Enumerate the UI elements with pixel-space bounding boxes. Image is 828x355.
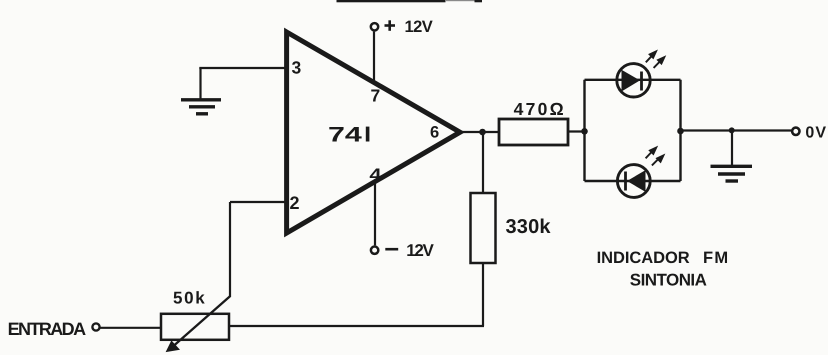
svg-text:470Ω: 470Ω bbox=[514, 99, 564, 119]
svg-text:4: 4 bbox=[369, 164, 382, 184]
svg-text:12V: 12V bbox=[405, 18, 433, 36]
svg-text:SINTONIA: SINTONIA bbox=[630, 270, 707, 289]
svg-text:7: 7 bbox=[371, 85, 381, 105]
svg-text:0V: 0V bbox=[805, 125, 826, 142]
svg-text:12V: 12V bbox=[406, 241, 434, 260]
svg-text:ENTRADA: ENTRADA bbox=[8, 319, 87, 339]
svg-text:2: 2 bbox=[290, 193, 300, 213]
svg-text:50k: 50k bbox=[173, 288, 205, 307]
svg-text:INDICADOR: INDICADOR bbox=[597, 249, 690, 267]
svg-text:6: 6 bbox=[430, 123, 439, 141]
svg-text:3: 3 bbox=[292, 58, 302, 78]
svg-text:330k: 330k bbox=[506, 216, 552, 238]
svg-text:74: 74 bbox=[328, 124, 362, 147]
svg-text:FM: FM bbox=[703, 249, 728, 267]
